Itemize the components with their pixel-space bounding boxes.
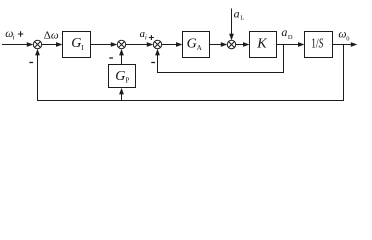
svg-text:Δω: Δω: [44, 29, 59, 41]
summing junction S4: [227, 40, 235, 48]
wire: GP input tapped from feedback rail: [121, 94, 123, 101]
svg-text:GP: GP: [115, 69, 129, 85]
svg-text:ω: ω: [338, 29, 346, 41]
block GP: [109, 65, 136, 88]
summing junction S1: [33, 40, 41, 48]
svg-text:D: D: [288, 34, 293, 41]
label omega_i: [5, 28, 14, 42]
sign + at S3 input: [149, 35, 154, 40]
wire: S2 to summing junction S3: [126, 44, 149, 46]
sign - at S1 feedback input: [29, 62, 33, 64]
svg-text:i: i: [145, 33, 147, 41]
wire: a_L disturbance input into S4: [231, 9, 233, 37]
block K: [250, 32, 277, 58]
label a_i: [140, 28, 147, 41]
wire: GA to summing junction S4: [210, 44, 224, 46]
summing junction S2: [117, 40, 125, 48]
label a_D: [281, 25, 293, 41]
summing junction S3: [153, 40, 161, 48]
label a_L: [234, 6, 245, 21]
sign + at S1 input: [18, 31, 23, 36]
svg-text:a: a: [281, 25, 287, 39]
wire: outer feedback loop from output back to S1: [38, 45, 344, 101]
svg-text:i: i: [13, 34, 15, 42]
block GA: [183, 32, 210, 58]
wire: S1 to block GI: [42, 44, 59, 46]
svg-text:L: L: [240, 15, 244, 22]
wire: S4 to block K: [236, 44, 246, 46]
wire: inner feedback tap from a_D back to S3: [158, 45, 284, 73]
sign - at S3 feedback input: [151, 62, 155, 64]
svg-text:GI: GI: [71, 36, 84, 52]
wire: GP output up into S2: [121, 55, 123, 65]
block GI: [63, 32, 91, 58]
wire: S3 to block GA: [162, 44, 179, 46]
wire: input line to summing junction S1: [2, 44, 29, 46]
svg-text:K: K: [256, 37, 267, 52]
sign - at S2 feedback input: [109, 57, 113, 59]
wire: GI to summing junction S2: [91, 44, 114, 46]
wire: K to block 1/S: [277, 44, 301, 46]
block 1/S: [305, 32, 333, 58]
svg-text:1/S: 1/S: [311, 36, 323, 51]
label omega_0: [338, 29, 349, 43]
svg-text:GA: GA: [187, 36, 202, 52]
svg-text:0: 0: [346, 35, 349, 42]
svg-text:a: a: [234, 6, 240, 20]
wire: output line with arrow: [333, 44, 354, 46]
